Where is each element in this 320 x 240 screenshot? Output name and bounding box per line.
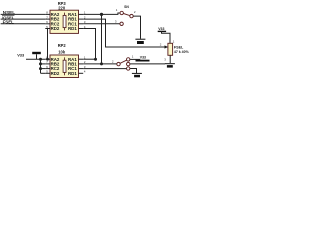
svg-text:FSEL: FSEL (174, 45, 184, 49)
svg-text:RD2: RD2 (51, 26, 60, 31)
wire RP3 pin4 down (83, 29, 95, 60)
pin 5 (45, 72, 50, 74)
node junction (39, 67, 42, 70)
wire (1, 23, 46, 25)
svg-text:4: 4 (84, 70, 86, 74)
power V33 (middle) (136, 55, 150, 60)
wire SW2 throw3 to ground (130, 69, 136, 74)
wire RP3 pin5 to V33 rail (47, 29, 49, 60)
node junction (100, 62, 103, 65)
svg-text:V33: V33 (140, 55, 146, 59)
svg-text:RD1: RD1 (68, 26, 77, 31)
wire RP2 pin2 to SW2 pole (83, 63, 117, 65)
node junction (100, 13, 103, 16)
ground (165, 64, 175, 68)
power V33 (right) (158, 27, 170, 43)
wire SW2 middle throw to ground rail (130, 63, 165, 65)
svg-text:1: 1 (116, 8, 118, 12)
wire RP3 pin1 to SN (83, 13, 120, 14)
pin 6 (45, 23, 50, 25)
svg-text:47 k 40%: 47 k 40% (174, 50, 190, 54)
node junction (94, 58, 97, 61)
wire (41, 72, 46, 74)
resistor pack RP2 (45, 43, 86, 77)
wire RP2 pin3 to SW2 throw (83, 68, 126, 70)
wire (1, 18, 46, 20)
pin 7 (45, 63, 50, 65)
node junction (39, 62, 42, 65)
svg-text:RD1: RD1 (68, 71, 77, 76)
switch SN (115, 5, 136, 26)
ground (132, 73, 142, 77)
pin 4 (79, 72, 84, 74)
wire RP3 pin2 to pot wiper (83, 19, 164, 47)
pin 6 (45, 68, 50, 70)
wire (101, 14, 103, 64)
svg-text:3: 3 (115, 19, 117, 23)
svg-text:2: 2 (134, 10, 136, 14)
svg-text:RD2: RD2 (51, 71, 60, 76)
pin 2 (79, 63, 84, 65)
potentiometer FSEL (160, 40, 190, 62)
pin 5 (45, 28, 50, 30)
svg-text:10k: 10k (58, 49, 66, 54)
svg-text:RP2: RP2 (58, 43, 67, 48)
svg-text:2: 2 (160, 42, 162, 46)
wire pot to ground (169, 55, 171, 63)
svg-text:3: 3 (164, 58, 166, 62)
wire (41, 63, 46, 65)
svg-text:1: 1 (173, 40, 175, 44)
node junction (46, 58, 49, 61)
wire RP2 pin1 to parked row4 vertical (83, 58, 95, 60)
wire (41, 68, 46, 70)
pin 4 (79, 28, 84, 30)
node junction (39, 58, 42, 61)
wire (40, 59, 42, 73)
wire (1, 13, 46, 15)
pin 1 (79, 58, 84, 60)
pin 7 (45, 18, 50, 20)
wire RP3 pin3 to SN pin3 (83, 23, 120, 25)
svg-text:220: 220 (58, 5, 66, 10)
switch SW2 (112, 55, 134, 71)
svg-text:1: 1 (132, 55, 134, 59)
pin 1 (79, 13, 84, 15)
svg-text:V33: V33 (17, 52, 25, 57)
pin 3 (79, 23, 84, 25)
wire SN pin2 to ground (133, 16, 140, 39)
svg-text:2: 2 (112, 60, 114, 64)
svg-text:SN: SN (124, 5, 129, 9)
resistor pack RP3 (45, 1, 86, 33)
power V33 (left) (17, 52, 41, 59)
pin 2 (79, 18, 84, 20)
svg-text:V33: V33 (158, 27, 164, 31)
wire SW2 throw1 to V33 (130, 58, 140, 60)
pin 8 (45, 58, 50, 60)
wire (26, 58, 45, 60)
ground (135, 39, 145, 44)
pin 8 (45, 13, 50, 15)
pin 3 (79, 68, 84, 70)
